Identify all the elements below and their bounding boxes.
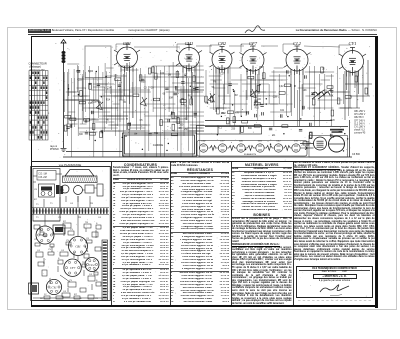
tube CB1 [114, 44, 140, 72]
montage column [294, 162, 375, 263]
voltage table [354, 111, 366, 135]
svg-text:CV: CV [58, 217, 62, 219]
materiel divers column [232, 162, 292, 304]
wire speaker feed [300, 143, 314, 145]
svg-text:CF7: CF7 [249, 41, 258, 46]
svg-text:CY1 280 V: CY1 280 V [354, 127, 366, 129]
svg-text:C8: C8 [151, 88, 155, 90]
svg-text:C4: C4 [63, 291, 67, 293]
svg-text:CB1 250 V: CB1 250 V [354, 111, 366, 113]
svg-text:250: 250 [231, 129, 236, 131]
svg-text:CB1: CB1 [239, 140, 243, 143]
svg-text:R7: R7 [74, 294, 78, 296]
tube CY1 [339, 48, 366, 77]
svg-text:C22: C22 [160, 73, 165, 75]
svg-text:T1: T1 [36, 204, 39, 206]
header strip [28, 29, 377, 35]
svg-text:CY1: CY1 [349, 41, 357, 46]
column dividers [110, 162, 113, 305]
svg-text:R7: R7 [40, 230, 44, 232]
cadre trapezoid [65, 170, 94, 177]
svg-text:50K: 50K [248, 128, 253, 130]
layout tube CF7 [64, 259, 81, 276]
svg-text:18K: 18K [221, 113, 226, 115]
svg-text:C3: C3 [144, 88, 148, 90]
svg-text:PHONO: PHONO [50, 148, 59, 151]
layout transformer box [39, 184, 55, 197]
svg-text:0,25: 0,25 [141, 81, 146, 83]
svg-text:T1: T1 [36, 217, 39, 219]
svg-text:CB2 85 V: CB2 85 V [354, 117, 364, 119]
svg-text:S: S [80, 298, 82, 300]
rectifier wiring [340, 60, 372, 120]
capacitors mesh [66, 70, 342, 137]
svg-text:R8: R8 [213, 82, 217, 84]
svg-text:CL2: CL2 [293, 41, 302, 46]
junction nodes [68, 68, 349, 152]
svg-text:CB1: CB1 [123, 41, 131, 46]
schematic/lower divider [31, 160, 375, 163]
svg-text:CL2: CL2 [89, 263, 95, 267]
svg-text:TR: TR [85, 222, 88, 224]
wires mixer and IF mesh [65, 44, 353, 157]
svg-text:C25: C25 [78, 80, 83, 82]
filter choke L3 [312, 90, 330, 99]
svg-text:CZ 500: CZ 500 [352, 153, 361, 156]
svg-text:C5: C5 [140, 120, 144, 122]
svg-text:C28: C28 [273, 96, 278, 98]
wire AVC bus [66, 151, 122, 153]
chassis layout frame [31, 167, 111, 301]
svg-text:TR: TR [90, 203, 93, 205]
heater filament chain [197, 141, 308, 157]
wire B+ bus [205, 120, 332, 122]
svg-text:200: 200 [180, 125, 185, 127]
svg-text:CB2: CB2 [218, 41, 227, 46]
svg-text:R20: R20 [331, 120, 336, 122]
svg-text:C4: C4 [89, 274, 93, 276]
wire chassis bus [63, 156, 352, 158]
connector pin table [29, 71, 48, 141]
svg-text:2M: 2M [175, 118, 178, 120]
svg-text:FILAMENTS: FILAMENTS [244, 153, 257, 156]
svg-text:chauff. 6,3: chauff. 6,3 [354, 130, 365, 132]
svg-text:CV: CV [70, 229, 74, 231]
resistors mesh [64, 67, 351, 139]
svg-text:CH1 250 V: CH1 250 V [354, 114, 366, 116]
IF cans [61, 185, 69, 193]
layout tube CB2 [36, 226, 54, 244]
svg-text:120: 120 [114, 75, 119, 77]
svg-text:47K: 47K [329, 96, 334, 98]
svg-text:TR: TR [78, 217, 81, 219]
label haut-parleur [330, 129, 344, 133]
svg-text:CV: CV [66, 240, 70, 242]
condensateurs column [113, 162, 169, 304]
resistances column [171, 162, 230, 304]
svg-text:CF7 245 V: CF7 245 V [354, 120, 365, 122]
svg-text:R16: R16 [255, 108, 260, 110]
tag strip [32, 208, 109, 215]
svg-text:60: 60 [163, 94, 166, 96]
svg-text:CB2: CB2 [42, 234, 48, 238]
svg-text:0,05: 0,05 [88, 103, 93, 105]
svg-text:C4: C4 [61, 250, 65, 252]
signature flourish [320, 285, 349, 292]
svg-text:CH1: CH1 [258, 140, 263, 143]
svg-text:15K: 15K [259, 67, 264, 69]
electrolytic caps [56, 185, 63, 194]
layout tube CL2 [85, 258, 99, 272]
svg-text:S: S [96, 223, 98, 225]
svg-text:10K: 10K [303, 90, 308, 92]
svg-text:CB1: CB1 [75, 245, 81, 249]
svg-text:0,02: 0,02 [279, 86, 284, 88]
svg-text:consom 45: consom 45 [354, 133, 366, 135]
handwritten check mark [245, 26, 265, 33]
scan noise [35, 38, 374, 302]
tube CB2 [210, 47, 235, 74]
svg-text:0,1: 0,1 [219, 127, 223, 129]
svg-text:vue PLANMASSE: vue PLANMASSE [59, 163, 82, 167]
antenna coil L1 [61, 40, 66, 149]
layout tube CB1 [69, 237, 88, 256]
svg-text:CADRE: CADRE [153, 143, 164, 147]
tube CH1 [176, 45, 202, 73]
svg-text:CL2 240 V: CL2 240 V [354, 123, 365, 125]
svg-text:C4: C4 [98, 217, 102, 219]
faint footnote dashes [298, 300, 371, 302]
svg-text:CY1: CY1 [294, 140, 298, 143]
main document frame [31, 36, 378, 37]
svg-text:R7: R7 [63, 221, 67, 223]
svg-text:8M: 8M [234, 95, 237, 97]
switch wafers [96, 89, 257, 110]
wires input section [63, 63, 146, 132]
svg-text:R14: R14 [106, 100, 111, 102]
svg-text:CF7: CF7 [70, 266, 76, 270]
svg-text:T1: T1 [50, 203, 53, 205]
value labels [76, 67, 335, 138]
svg-text:C4: C4 [94, 270, 98, 272]
layout misc parts [34, 223, 101, 299]
svg-text:CH1: CH1 [185, 41, 194, 46]
svg-text:12: 12 [44, 294, 47, 296]
layout connector left [29, 283, 39, 294]
frame antenna CADRE [123, 133, 197, 156]
layout HP transformer [53, 225, 65, 234]
svg-text:R7: R7 [34, 199, 38, 201]
svg-text:S: S [58, 258, 60, 260]
shield box oscillator [85, 46, 111, 78]
svg-text:C4: C4 [37, 250, 41, 252]
svg-text:S: S [96, 280, 98, 282]
layout subframe [33, 169, 60, 222]
svg-text:CV: CV [48, 249, 52, 251]
svg-text:CB2: CB2 [201, 140, 206, 143]
svg-text:GO PO OC PU: GO PO OC PU [30, 69, 45, 71]
svg-text:5K: 5K [212, 87, 215, 89]
svg-text:C21: C21 [280, 110, 285, 112]
layout tube CY1 [46, 279, 61, 294]
tube CL2 [284, 46, 311, 75]
svg-text:90: 90 [125, 136, 128, 138]
svg-text:C9: C9 [86, 238, 90, 240]
svg-text:CY1: CY1 [51, 286, 57, 290]
layout wires [33, 174, 108, 298]
svg-text:20: 20 [322, 69, 325, 71]
ground chassis [61, 149, 67, 152]
layout small labels [34, 189, 102, 300]
svg-text:C17: C17 [220, 73, 225, 75]
wire heater bus [205, 126, 348, 128]
svg-text:R11: R11 [154, 133, 159, 135]
header rule [28, 33, 377, 36]
svg-text:C19: C19 [76, 71, 81, 73]
svg-text:1M: 1M [168, 74, 171, 76]
svg-text:C.D.-1M: C.D.-1M [38, 173, 47, 175]
svg-text:CF7: CF7 [220, 140, 225, 143]
layout side tag strip [102, 240, 108, 300]
svg-text:47K: 47K [235, 112, 240, 114]
svg-text:5000: 5000 [88, 71, 94, 73]
svg-text:100: 100 [257, 99, 262, 101]
svg-text:40: 40 [106, 119, 109, 121]
svg-text:65: 65 [123, 102, 126, 104]
svg-text:25K: 25K [184, 129, 189, 131]
constructor service box [296, 266, 373, 298]
terminal strip boxes [197, 126, 262, 135]
svg-text:R1: R1 [272, 135, 276, 137]
svg-text:R2: R2 [40, 298, 44, 300]
layout note box [37, 171, 56, 181]
svg-text:(balayage): (balayage) [30, 66, 41, 69]
svg-text:CL2: CL2 [276, 140, 281, 143]
speaker enclosure [309, 136, 348, 158]
svg-text:C7: C7 [184, 74, 188, 76]
svg-text:C4: C4 [70, 203, 74, 205]
wire HT line [349, 120, 351, 157]
speaker HP [329, 136, 345, 152]
output transformer T2 [314, 137, 327, 150]
svg-text:TR: TR [82, 262, 85, 264]
svg-text:300: 300 [79, 134, 84, 136]
svg-text:30K: 30K [169, 98, 174, 100]
svg-text:C9: C9 [34, 189, 38, 191]
cadre hatched bar [63, 176, 98, 183]
tube CF7 [240, 46, 267, 75]
tube pin wires [121, 72, 359, 126]
svg-text:C.B.-2M: C.B.-2M [38, 177, 47, 179]
svg-text:C9: C9 [95, 298, 99, 300]
